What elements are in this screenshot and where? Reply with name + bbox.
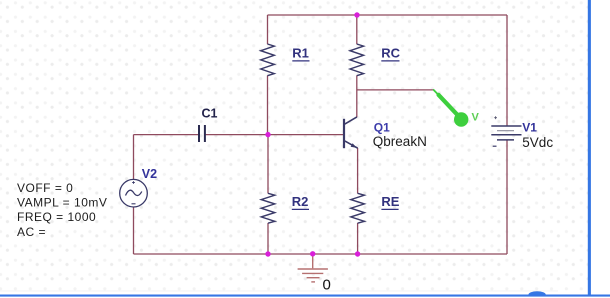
svg-text:V1: V1 bbox=[522, 120, 537, 134]
svg-text:QbreakN: QbreakN bbox=[373, 134, 427, 149]
svg-text:RC: RC bbox=[381, 46, 400, 61]
svg-text:AC =: AC = bbox=[17, 225, 46, 239]
svg-text:FREQ = 1000: FREQ = 1000 bbox=[17, 210, 96, 224]
svg-text:V2: V2 bbox=[142, 167, 157, 181]
svg-text:V: V bbox=[472, 112, 480, 124]
svg-text:RE: RE bbox=[381, 194, 399, 209]
svg-text:5Vdc: 5Vdc bbox=[522, 135, 553, 150]
svg-text:VOFF = 0: VOFF = 0 bbox=[17, 181, 73, 195]
svg-text:Q1: Q1 bbox=[374, 120, 390, 134]
svg-text:C1: C1 bbox=[202, 106, 218, 120]
svg-text:0: 0 bbox=[323, 277, 331, 294]
svg-text:R2: R2 bbox=[292, 194, 309, 209]
svg-text:VAMPL = 10mV: VAMPL = 10mV bbox=[17, 196, 107, 210]
svg-text:R1: R1 bbox=[292, 46, 309, 61]
